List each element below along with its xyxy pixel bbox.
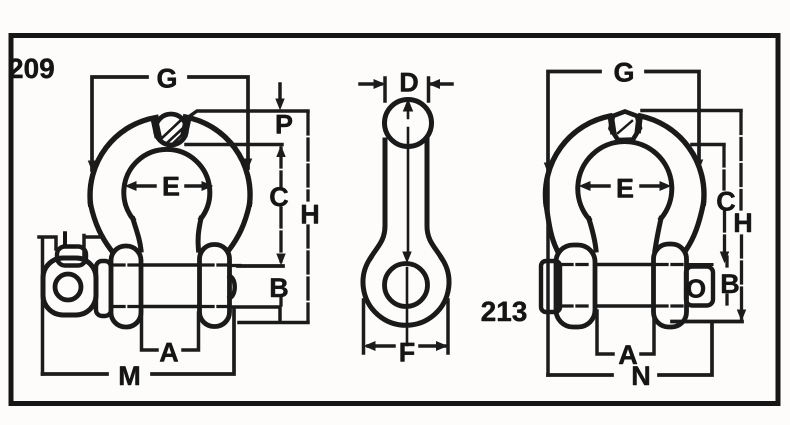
fig3 letter A (619, 345, 637, 364)
fig1 dim M bottom bracket (43, 310, 235, 374)
fig3 pin bottom line (598, 304, 651, 308)
fig1 pin head boss (57, 247, 86, 266)
fig2 shaft right edge (427, 140, 442, 258)
fig2 dim D line and ticks (360, 78, 452, 101)
fig1 letter G (158, 69, 176, 88)
fig3 dim H line (739, 113, 743, 319)
fig1 letter H (302, 205, 318, 224)
fig3 right ear (654, 244, 687, 327)
fig3 pin-bottom reference line (692, 143, 724, 147)
fig2 centerline (407, 104, 408, 345)
fig2 dim F brackets (364, 300, 449, 353)
fig2 dim D arrowheads (374, 80, 440, 88)
fig1 left leg outer edge (91, 204, 112, 250)
fig1 pin bottom line extension right with step (232, 307, 308, 323)
fig3 letter N (633, 366, 649, 385)
fig2 centerline arrowheads (403, 100, 413, 262)
fig1 pin top line extension right to C/B column (232, 264, 240, 267)
fig1 letter E (164, 177, 179, 196)
fig3 hex hatch (618, 121, 632, 133)
fig1 right leg inner edge (198, 219, 201, 251)
fig3 dim G bracket (548, 72, 699, 171)
fig1 letter A (160, 343, 178, 362)
fig3 nut (686, 267, 713, 306)
fig1 letter M (120, 366, 139, 385)
fig3 left vertical continuation to N (546, 174, 550, 375)
fig3 left leg outer edge (546, 204, 557, 250)
fig3 right leg inner edge (655, 219, 661, 251)
fig3 top reference line (642, 109, 741, 113)
fig2 dim F line (368, 344, 446, 348)
fig3 left ear (556, 245, 595, 327)
label 209 (9, 58, 54, 78)
fig1 pin bottom line across jaw (142, 305, 200, 309)
fig3 hex bolt head top (611, 112, 641, 141)
fig3 dim E arrows (588, 184, 662, 188)
fig1 pin circle (156, 114, 187, 145)
fig2 dim F arrowheads (365, 342, 447, 350)
fig1 left ear (111, 246, 141, 327)
label 213 (482, 301, 527, 321)
fig3 letter H (735, 213, 751, 232)
fig1 top reference line (bow top) (187, 111, 308, 118)
fig1 pin-bottom reference line (186, 143, 282, 147)
fig1 right leg outer edge (229, 204, 250, 250)
fig1 pin tip bump (230, 276, 235, 298)
fig2 eye circle (385, 100, 432, 147)
fig1 dim C line (279, 148, 282, 261)
fig3 dim B line bits (725, 257, 728, 304)
fig1 outer bow arc (90, 117, 250, 204)
fig3 right leg outer edge (686, 203, 704, 250)
fig3 pin top extension over nut (688, 263, 712, 266)
fig3 left leg inner edge (589, 219, 596, 250)
fig3 bolt head side (541, 261, 560, 312)
fig1 dim P arrow from above (278, 84, 282, 102)
fig3 pin top line (598, 263, 651, 267)
fig1 dim M left vertical (41, 239, 45, 374)
fig3 dim C line (722, 147, 726, 258)
fig3 dim A bracket (597, 311, 654, 354)
fig1 dim H line (306, 113, 309, 320)
fig1 collar (96, 261, 111, 316)
fig2 letter D (401, 73, 418, 92)
fig1 letter B (271, 278, 287, 297)
fig1 pin head eye hole (55, 274, 81, 300)
fig2 shaft left edge (371, 140, 386, 258)
fig3 dim N bottom bracket (548, 323, 712, 375)
fig1 dim B line bits (279, 296, 282, 305)
fig2 letter F (401, 343, 415, 362)
fig1 left leg inner edge (133, 219, 141, 250)
fig1 inner bow arc (124, 149, 210, 219)
fig3 letter B (722, 274, 738, 293)
fig1 letter C (270, 187, 288, 206)
fig3 H bottom reference line (672, 320, 742, 324)
fig3 letter O (687, 279, 705, 297)
fig3 outer bow arc (545, 116, 704, 204)
fig3 inner bow arc (578, 142, 672, 219)
fig1 pin top line across jaw (142, 263, 200, 267)
fig1 dim G arrowheads (89, 159, 252, 170)
fig1 right ear (200, 245, 230, 327)
fig1 pin head (43, 258, 96, 315)
fig3 letter E (618, 179, 633, 198)
fig1 dim A bracket (142, 311, 199, 350)
fig3 pin notch shoulders (611, 118, 640, 132)
fig3 letter C (717, 192, 735, 211)
fig1 pin notch shoulders (155, 120, 188, 135)
fig1 dim G bracket (92, 77, 248, 170)
fig1 dim E arrows (134, 184, 207, 188)
fig1 dim L bracket (39, 236, 103, 260)
fig2 boss outer circle (363, 258, 449, 325)
fig3 dim G arrowheads (545, 160, 703, 172)
fig1 letter L (63, 231, 75, 248)
fig1 pin hatching (162, 121, 184, 144)
fig1 letter P (277, 115, 292, 134)
fig3 letter G (615, 63, 633, 82)
fig2 boss inner circle (385, 264, 428, 307)
